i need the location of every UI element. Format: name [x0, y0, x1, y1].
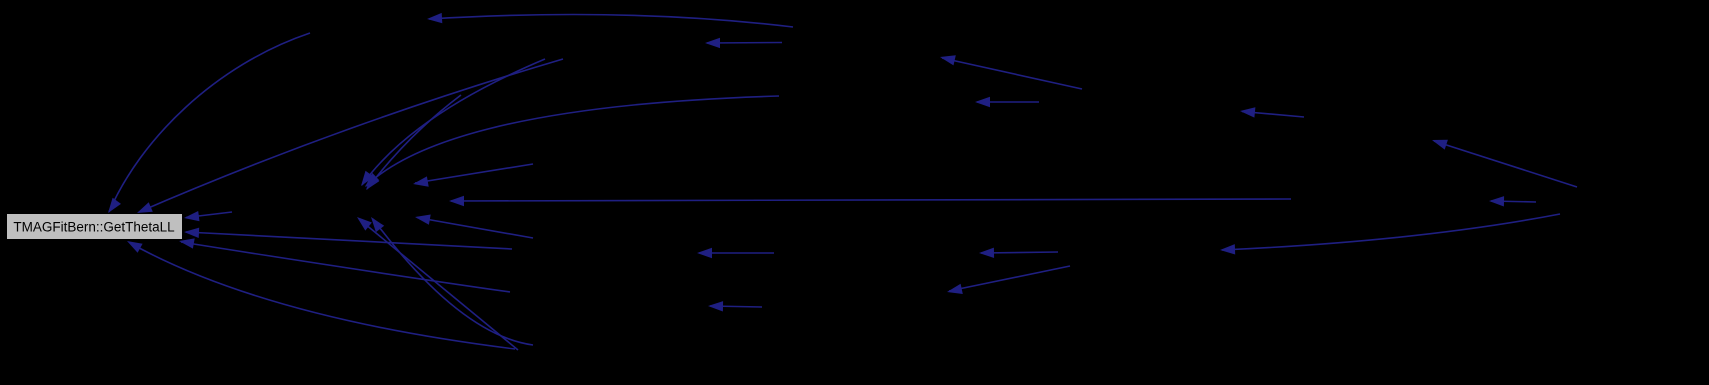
- svg-text:TMAGFitBern::GetThetaLL: TMAGFitBern::GetThetaLL: [13, 220, 175, 235]
